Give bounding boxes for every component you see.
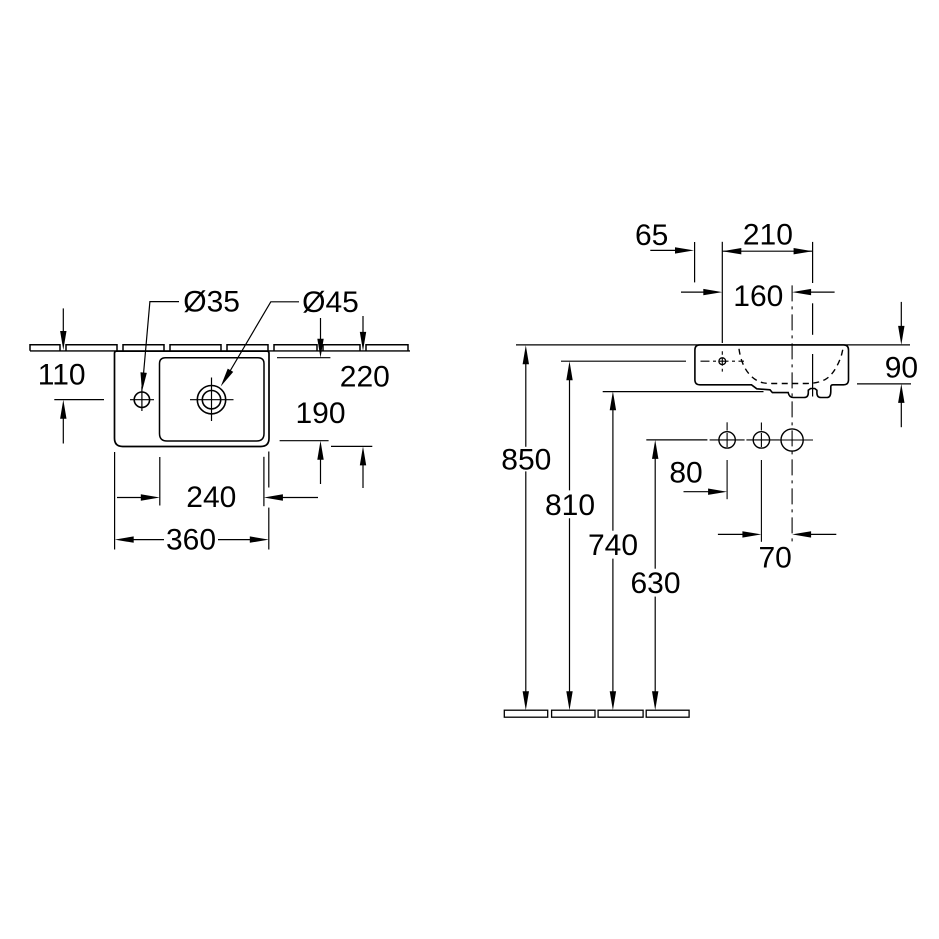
svg-text:630: 630 bbox=[630, 567, 680, 600]
extension line 65 (basin left edge) bbox=[694, 242, 696, 282]
tap centerline (front) bbox=[721, 242, 723, 343]
svg-text:850: 850 bbox=[501, 444, 551, 477]
svg-text:240: 240 bbox=[186, 481, 236, 514]
svg-text:190: 190 bbox=[295, 397, 345, 430]
dimension 810 bbox=[569, 379, 571, 694]
dimension 360 bbox=[115, 452, 269, 550]
arrow 65 bbox=[675, 247, 694, 253]
drain hole crosshair bbox=[771, 439, 813, 441]
wall face line (plan view) bbox=[30, 350, 410, 352]
dimension 210 bbox=[722, 250, 812, 252]
tap hole (front view) small circle bbox=[719, 358, 726, 365]
tap hole circle Ø35 (plan) bbox=[134, 392, 149, 407]
supply hole circle 2 (front) bbox=[753, 432, 769, 448]
leader line Ø45 bbox=[228, 302, 299, 375]
tap hole crosshair bbox=[130, 387, 154, 412]
floor slabs bbox=[504, 710, 689, 717]
extension line 210 right bbox=[812, 242, 814, 397]
basin outer outline (plan) bbox=[115, 351, 270, 446]
drain hole circle (front) bbox=[781, 429, 803, 451]
svg-text:65: 65 bbox=[635, 219, 668, 252]
basin outline with drain fitting silhouette (front) bbox=[695, 345, 849, 398]
svg-text:220: 220 bbox=[340, 361, 390, 394]
dimension 630 bbox=[654, 457, 656, 693]
dimension 740 bbox=[612, 409, 614, 694]
svg-text:210: 210 bbox=[743, 219, 793, 252]
svg-text:160: 160 bbox=[733, 280, 783, 313]
dimension 70 bbox=[718, 533, 836, 535]
supply hole circle 1 (front) bbox=[719, 432, 735, 448]
svg-text:740: 740 bbox=[588, 529, 638, 562]
dimension 110 bbox=[54, 308, 104, 443]
dimension 190 bbox=[277, 318, 330, 484]
inner bowl outline (plan) bbox=[160, 358, 265, 441]
drain crosshair bbox=[190, 378, 234, 422]
wall hatch segments (plan view) bbox=[30, 345, 408, 351]
supply hole 2 crosshair bbox=[746, 423, 779, 542]
extension line 740 (fitting level) bbox=[603, 391, 764, 393]
svg-text:70: 70 bbox=[759, 542, 792, 575]
dimension 65 bbox=[650, 249, 676, 251]
svg-text:Ø35: Ø35 bbox=[183, 286, 240, 319]
dimension 90 bbox=[857, 302, 911, 427]
dimension 220 bbox=[331, 316, 372, 488]
dimension 850 bbox=[525, 363, 527, 694]
svg-text:360: 360 bbox=[166, 524, 216, 557]
drain centerline dash-dot bbox=[791, 285, 793, 541]
dimension 240 bbox=[117, 457, 318, 506]
leader arrow Ø45 bbox=[218, 369, 233, 389]
dimension 160 bbox=[681, 291, 835, 293]
tap hole dashed crosshair (front) bbox=[701, 351, 745, 371]
svg-text:810: 810 bbox=[545, 489, 595, 522]
drain circles Ø45 (plan) bbox=[197, 386, 225, 414]
svg-text:80: 80 bbox=[669, 457, 702, 490]
leader arrow Ø35 bbox=[139, 372, 147, 391]
extension line 810 (tap level) bbox=[561, 360, 686, 362]
extension line 630 (supply level) bbox=[646, 439, 707, 441]
supply hole 1 crosshair bbox=[710, 422, 745, 499]
wall line (front view) bbox=[516, 344, 910, 346]
hidden bowl dashed outline (front) bbox=[739, 349, 843, 384]
svg-text:110: 110 bbox=[38, 359, 86, 392]
svg-text:90: 90 bbox=[885, 352, 918, 385]
svg-text:Ø45: Ø45 bbox=[302, 286, 359, 319]
leader line Ø35 bbox=[144, 302, 180, 374]
dimension 80 bbox=[684, 491, 710, 493]
